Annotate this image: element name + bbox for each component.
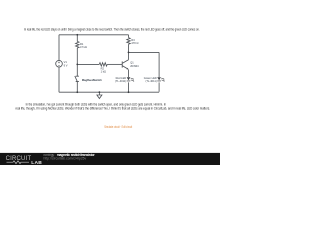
wire left branch upper: [58, 35, 60, 61]
resistor R2: [99, 63, 107, 66]
V1 plus minus marks: [58, 62, 60, 66]
svg-text:http://circuitlab.com/c/4rp25v: http://circuitlab.com/c/4rp25v: [44, 156, 87, 160]
svg-text:(TL-4011): (TL-4011): [115, 79, 126, 83]
wire R3 branch top: [128, 35, 130, 38]
wire R2 to base: [107, 63, 122, 65]
svg-text:real life, though, I'm using N: real life, though, I'm using Nichia LEDs…: [16, 107, 211, 111]
wire R1 branch top: [76, 35, 78, 42]
svg-text:2N3904: 2N3904: [130, 65, 139, 68]
wire green LED to rail: [158, 82, 160, 91]
wire left branch lower: [58, 67, 60, 92]
Q1 emitter arrowhead: [127, 68, 129, 70]
node collector: [128, 52, 130, 54]
ground triangle: [97, 95, 102, 99]
node ground: [99, 91, 101, 93]
resistor R3: [127, 38, 130, 45]
wire collector up: [128, 52, 130, 59]
svg-text:In real life, the red LED stay: In real life, the red LED stays on until…: [24, 27, 200, 31]
wire emitter down: [128, 70, 130, 77]
node red LED bottom: [128, 91, 130, 93]
junction node dots: [76, 34, 129, 93]
wire R3 to collector node: [128, 44, 130, 52]
svg-text:Simulate circuit · Edit circui: Simulate circuit · Edit circuit: [104, 125, 132, 129]
labels: [64, 38, 157, 83]
svg-text:470 Ω: 470 Ω: [131, 41, 138, 45]
svg-text:9 V: 9 V: [64, 63, 68, 67]
svg-text:47 kΩ: 47 kΩ: [80, 45, 87, 49]
reed switch SW1: [75, 76, 79, 82]
footer bar: [0, 153, 220, 165]
LED D2 emission arrows: [161, 78, 164, 81]
wire top rail: [59, 34, 129, 36]
logo resistor squiggle: [7, 161, 30, 164]
wire mid horizontal: [77, 63, 99, 65]
wire red LED to rail: [128, 82, 130, 92]
transistor Q1: [122, 60, 128, 69]
LED D1 red symbol: [127, 77, 131, 81]
wire node to switch: [76, 64, 78, 76]
wire green branch down: [158, 52, 160, 77]
wire switch to rail: [76, 82, 78, 93]
voltage source V1: [56, 60, 63, 67]
node switch bottom: [76, 91, 78, 93]
svg-text:(TL-4011): (TL-4011): [145, 79, 156, 83]
node mid: [76, 64, 78, 66]
svg-text:1 kΩ: 1 kΩ: [101, 70, 106, 74]
wire bottom rail: [59, 91, 159, 93]
svg-text:LAB: LAB: [31, 160, 42, 165]
svg-text:MagReedSwitch: MagReedSwitch: [82, 78, 102, 82]
wire collector node to green branch: [129, 51, 160, 53]
LED D1 emission arrows: [131, 78, 134, 81]
wire R1 to node: [76, 48, 78, 64]
LED D2 green symbol: [157, 77, 161, 81]
node R1 top: [76, 34, 78, 36]
ground stem: [98, 92, 100, 95]
resistor R1: [76, 41, 79, 48]
